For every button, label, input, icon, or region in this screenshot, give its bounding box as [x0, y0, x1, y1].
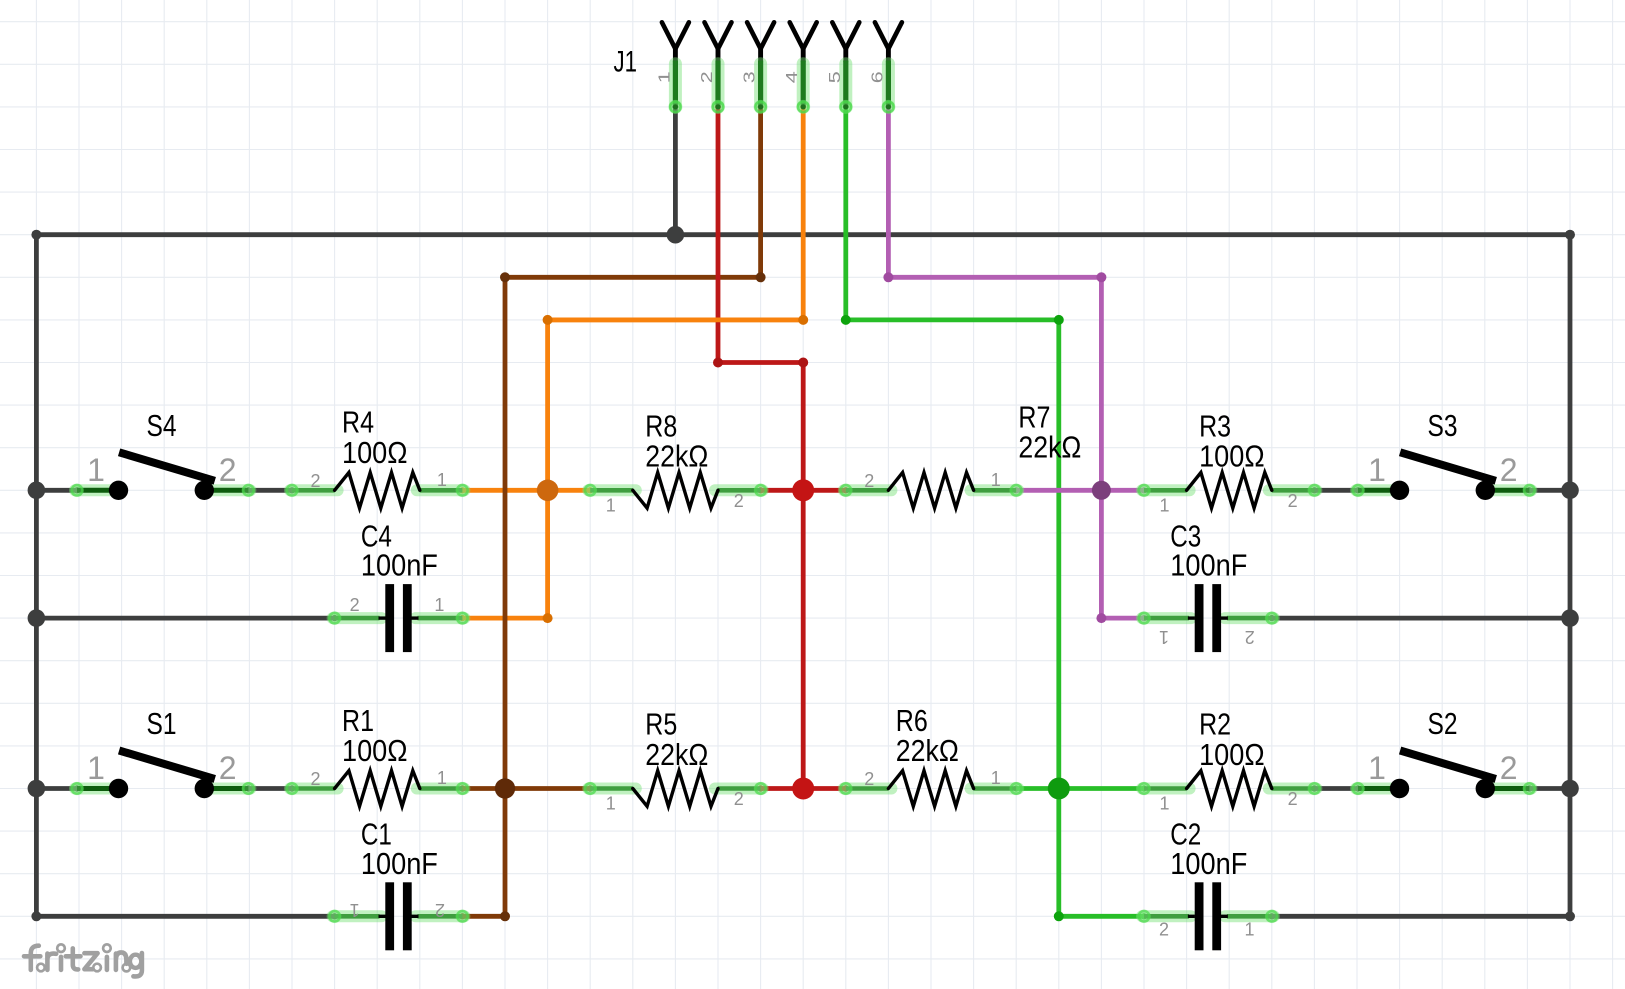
svg-text:2: 2 [1159, 920, 1169, 940]
svg-text:1: 1 [437, 768, 447, 788]
svg-text:22kΩ: 22kΩ [1018, 430, 1081, 465]
svg-text:1: 1 [350, 900, 360, 920]
svg-text:1: 1 [1244, 920, 1254, 940]
svg-text:S4: S4 [147, 408, 177, 443]
svg-text:2: 2 [1288, 789, 1298, 809]
svg-text:1: 1 [1368, 452, 1386, 488]
svg-text:1: 1 [1159, 495, 1169, 515]
svg-text:2: 2 [1500, 750, 1518, 786]
svg-text:1: 1 [1159, 627, 1169, 647]
svg-text:6: 6 [869, 71, 886, 83]
svg-text:2: 2 [310, 769, 320, 789]
svg-text:2: 2 [734, 491, 744, 511]
svg-text:1: 1 [434, 595, 444, 615]
svg-text:J1: J1 [614, 46, 638, 79]
svg-text:2: 2 [1288, 491, 1298, 511]
svg-text:1: 1 [991, 768, 1001, 788]
svg-text:100nF: 100nF [1170, 548, 1247, 583]
svg-text:1: 1 [1368, 750, 1386, 786]
svg-text:1: 1 [606, 794, 616, 814]
svg-text:3: 3 [742, 71, 759, 83]
svg-text:2: 2 [864, 769, 874, 789]
svg-text:100nF: 100nF [1170, 846, 1247, 881]
svg-text:2: 2 [864, 471, 874, 491]
svg-text:1: 1 [991, 470, 1001, 490]
svg-text:100nF: 100nF [361, 548, 438, 583]
svg-text:S2: S2 [1428, 706, 1458, 741]
svg-text:22kΩ: 22kΩ [896, 733, 959, 768]
svg-text:2: 2 [699, 71, 716, 83]
svg-text:1: 1 [87, 452, 105, 488]
svg-text:100Ω: 100Ω [1199, 737, 1265, 772]
svg-text:1: 1 [437, 470, 447, 490]
svg-text:2: 2 [734, 789, 744, 809]
svg-text:5: 5 [827, 71, 844, 83]
svg-text:100Ω: 100Ω [1199, 439, 1265, 474]
svg-text:4: 4 [784, 71, 801, 83]
svg-text:2: 2 [350, 595, 360, 615]
svg-text:1: 1 [87, 750, 105, 786]
svg-text:1: 1 [606, 495, 616, 515]
svg-text:100Ω: 100Ω [342, 733, 408, 768]
svg-text:22kΩ: 22kΩ [645, 439, 708, 474]
svg-text:2: 2 [435, 900, 445, 920]
svg-text:S1: S1 [147, 706, 177, 741]
svg-text:2: 2 [1500, 452, 1518, 488]
svg-text:22kΩ: 22kΩ [645, 737, 708, 772]
svg-text:1: 1 [1159, 794, 1169, 814]
svg-text:100Ω: 100Ω [342, 435, 408, 470]
svg-text:S3: S3 [1428, 408, 1458, 443]
svg-text:2: 2 [219, 750, 237, 786]
svg-text:2: 2 [219, 452, 237, 488]
svg-text:2: 2 [1245, 627, 1255, 647]
svg-text:100nF: 100nF [361, 846, 438, 881]
svg-text:2: 2 [310, 471, 320, 491]
svg-text:1: 1 [656, 71, 673, 83]
